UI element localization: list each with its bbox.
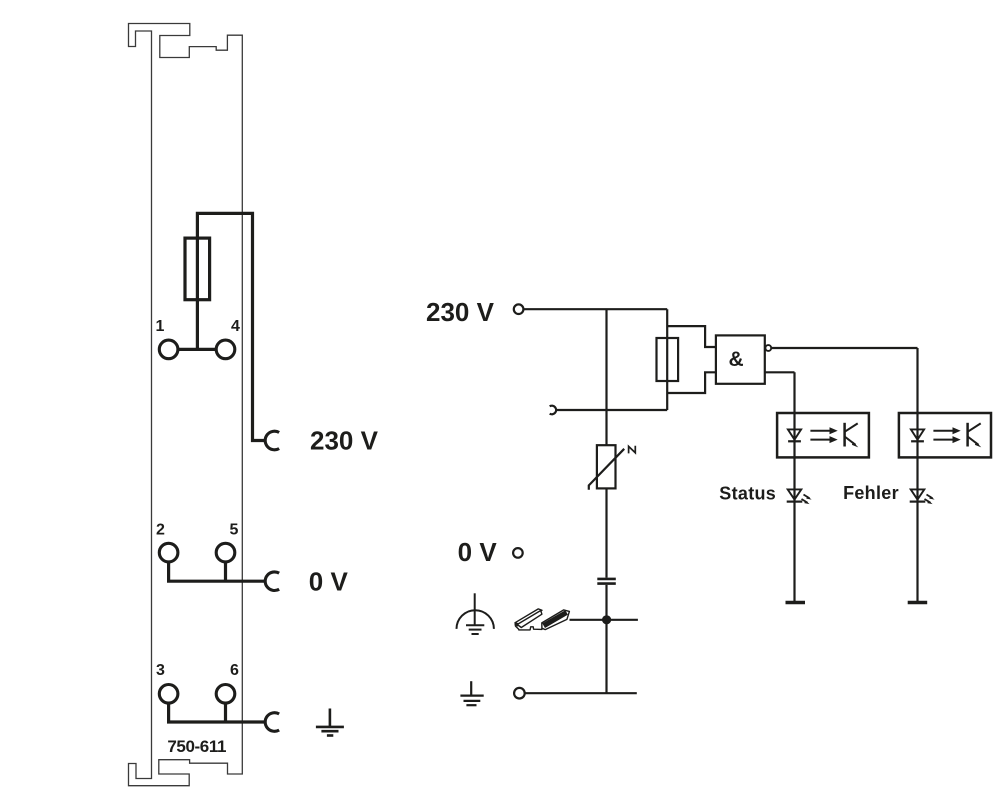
svg-text:0 V: 0 V [309,566,349,596]
svg-text:230 V: 230 V [310,426,379,456]
svg-text:&: & [729,348,744,371]
svg-text:Status: Status [719,484,776,504]
svg-text:0 V: 0 V [458,537,498,567]
svg-text:230 V: 230 V [426,297,495,327]
svg-text:6: 6 [230,662,239,679]
svg-text:1: 1 [156,318,165,335]
svg-text:2: 2 [156,522,165,539]
svg-text:750-611: 750-611 [167,737,226,756]
svg-text:5: 5 [230,522,239,539]
svg-text:3: 3 [156,662,165,679]
svg-text:4: 4 [231,318,240,335]
svg-text:Fehler: Fehler [843,483,899,503]
